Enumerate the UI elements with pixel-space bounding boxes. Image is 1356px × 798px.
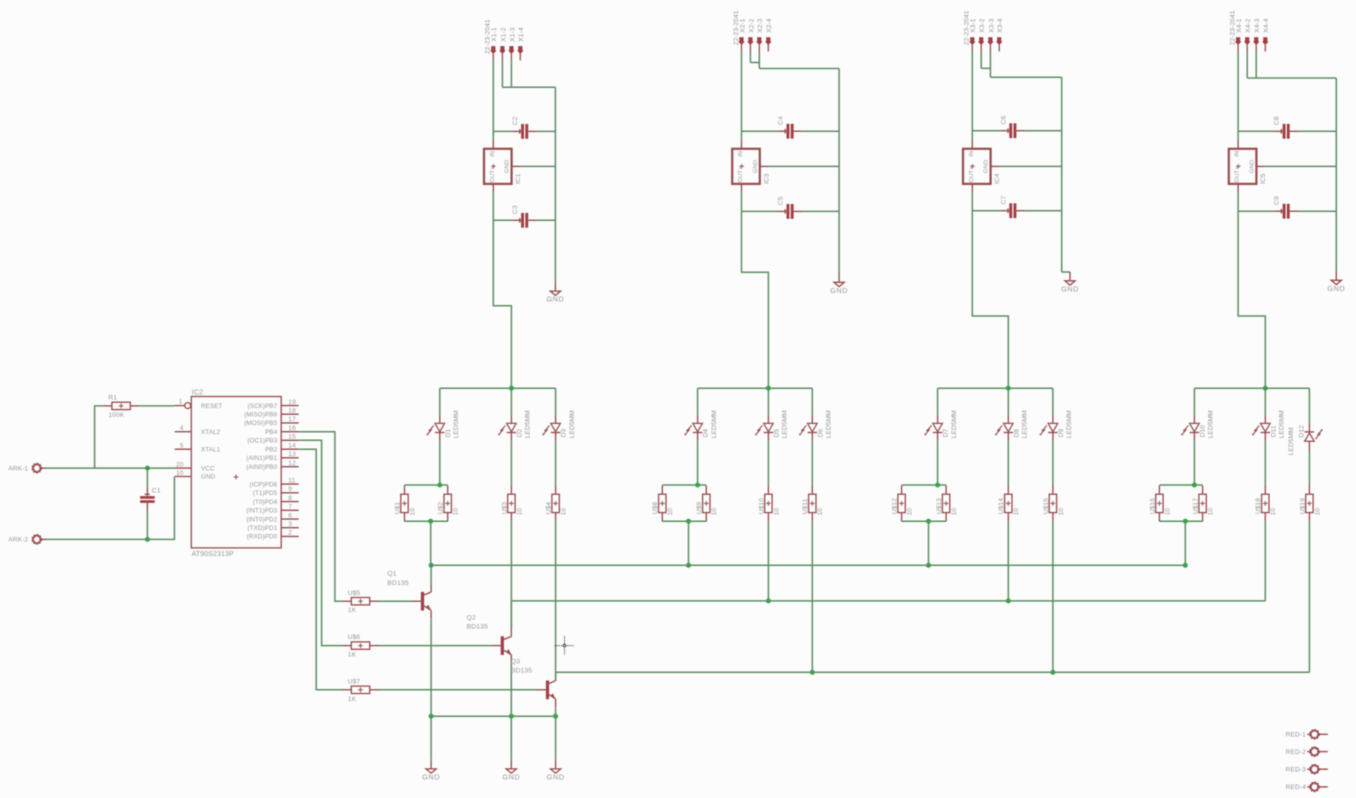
svg-text:OUT+: OUT+ [738, 166, 744, 183]
wire IC3 GND to rail [769, 165, 840, 167]
wire R1 left to VCC net [95, 406, 103, 468]
wire C8 to rail [1298, 130, 1336, 132]
wire R1 to IC2 RESET [139, 405, 175, 407]
junction pair bottom group 1 [428, 519, 433, 524]
LED D10 [1181, 410, 1214, 441]
connector pin X2-3 [756, 18, 764, 51]
wire Q3 emitter down [555, 708, 557, 716]
wire LED rail group 1 [440, 387, 556, 389]
svg-text:1K: 1K [348, 696, 357, 703]
wire X3-3 down [989, 52, 991, 78]
svg-text:GND: GND [422, 773, 440, 782]
junction pair bottom group 4 [1183, 519, 1188, 524]
wire Q1 emitter to ground [430, 716, 432, 760]
svg-text:U$11: U$11 [802, 498, 809, 514]
connector pin X1-3 [508, 27, 516, 60]
svg-text:LED5MM: LED5MM [1288, 427, 1295, 455]
svg-text:LED5MM: LED5MM [951, 410, 958, 438]
svg-text:X1-1: X1-1 [491, 27, 498, 42]
svg-text:10: 10 [667, 508, 674, 516]
svg-text:1: 1 [179, 399, 183, 406]
junction column2 on line2 group 2 [766, 598, 771, 603]
connector RED-2 [1286, 748, 1328, 756]
svg-text:C2: C2 [512, 116, 519, 125]
capacitor C9 [1274, 196, 1299, 219]
wire Q1 collector bus [431, 564, 1185, 566]
wire U$4 to Q3 collector corner [555, 522, 557, 673]
svg-text:IN: IN [490, 151, 496, 157]
LED D7 [924, 410, 957, 441]
resistor U$3 [501, 485, 523, 521]
resistor U$11 [802, 485, 824, 521]
wire IC2 PB4 to U$5 [299, 432, 343, 602]
wire IC2 PB2 to U$7 [299, 449, 343, 690]
wire pair bottom rail group 1 [405, 520, 448, 522]
svg-text:C7: C7 [1000, 195, 1007, 204]
svg-text:X2-2: X2-2 [748, 18, 755, 33]
wire column2 to line2 group 2 [767, 522, 769, 601]
wire X4-2 down [1246, 52, 1248, 79]
resistor R1 [103, 395, 139, 419]
ground [422, 760, 440, 782]
capacitor C6 [1000, 115, 1025, 138]
svg-text:1K: 1K [348, 652, 357, 659]
svg-text:X4-3: X4-3 [1254, 18, 1261, 33]
connector pin X4-3 [1253, 18, 1261, 51]
junction rail feed group 2 [766, 386, 771, 391]
wire D10 to resistor pair top [1193, 441, 1195, 485]
svg-text:C5: C5 [778, 196, 785, 205]
wire C7 to rail [1025, 210, 1062, 212]
connector pin X3-2 [978, 18, 986, 51]
svg-text:(SCK)PB7: (SCK)PB7 [247, 403, 277, 410]
svg-text:(OC1)PB3: (OC1)PB3 [247, 438, 277, 445]
wire gnd horizontal to rail [759, 68, 839, 70]
resistor U$9 [696, 485, 718, 521]
connector RED-1 [1286, 730, 1328, 738]
connector X3 22-23-2041 label [964, 10, 971, 45]
voltage regulator IC4 [963, 140, 1001, 193]
junction column1 on line1 group 4 [1183, 563, 1188, 568]
wire gnd rail of X3 block [1061, 77, 1063, 272]
svg-text:LED5MM: LED5MM [1021, 410, 1028, 438]
svg-text:(MOSI)PB5: (MOSI)PB5 [244, 420, 277, 427]
svg-text:(AIN0)PB0: (AIN0)PB0 [246, 464, 277, 471]
cursor crosshair [555, 636, 574, 655]
svg-text:D7: D7 [943, 428, 950, 437]
wire D12 to resistor [1308, 451, 1310, 486]
svg-text:10: 10 [176, 470, 184, 477]
connector pin X1-1 [490, 27, 498, 60]
svg-text:U$19: U$19 [1299, 498, 1306, 514]
ground [547, 760, 565, 782]
svg-text:C4: C4 [778, 116, 785, 125]
junction emitter Q2 [509, 714, 514, 719]
svg-text:GND: GND [546, 295, 564, 304]
svg-text:LED5MM: LED5MM [826, 410, 833, 438]
svg-text:X2-3: X2-3 [757, 18, 764, 33]
svg-text:10: 10 [1270, 508, 1277, 516]
svg-text:U$10: U$10 [758, 498, 765, 514]
svg-text:LED5MM: LED5MM [1208, 410, 1215, 438]
svg-text:XTAL1: XTAL1 [201, 446, 221, 453]
wire pair top rail group 1 [405, 484, 448, 486]
resistor U$13 [936, 485, 958, 521]
svg-text:IC2: IC2 [192, 389, 203, 396]
transistor Q3 BD135 [511, 658, 556, 707]
wire OUT node to C3 [493, 219, 512, 221]
voltage regulator IC3 [732, 140, 770, 193]
svg-text:2: 2 [288, 530, 292, 537]
junction pair top group 2 [695, 483, 700, 488]
svg-text:U$17: U$17 [1193, 498, 1200, 514]
wire X2-3 down [758, 52, 760, 69]
svg-text:C9: C9 [1274, 196, 1281, 205]
wire U$7 to Q3 base [379, 689, 538, 691]
svg-text:X3-2: X3-2 [979, 18, 986, 33]
connector RED-3 [1286, 765, 1328, 773]
junction pair bottom group 3 [926, 519, 931, 524]
junction pair top group 1 [437, 483, 442, 488]
wire GND net ARK-2 to IC2 pin10 [46, 477, 175, 540]
wire D4 to resistor pair top [697, 441, 699, 485]
wire IN node to C4 [742, 130, 778, 132]
svg-text:IC3: IC3 [763, 173, 770, 184]
svg-text:U$18: U$18 [1255, 498, 1262, 514]
connector X2 22-23-2041 label [733, 10, 740, 45]
svg-text:BD135: BD135 [387, 580, 408, 587]
LED D8 [995, 410, 1028, 441]
svg-text:D8: D8 [1013, 428, 1020, 437]
svg-text:RED-2: RED-2 [1286, 749, 1307, 756]
junction column2 on line2 group 3 [1006, 598, 1011, 603]
wire OUT node to C7 [972, 210, 1000, 212]
svg-text:LED5MM: LED5MM [782, 410, 789, 438]
connector pin X2-4 [765, 18, 773, 51]
wire Q2 collector bus [511, 600, 1265, 602]
svg-text:U$14: U$14 [998, 498, 1005, 514]
connector ARK-1 [8, 464, 46, 472]
svg-text:GND: GND [830, 286, 848, 295]
svg-text:X1-2: X1-2 [500, 27, 507, 42]
wire LED rail group 3 [938, 387, 1053, 389]
connector pin X3-1 [969, 18, 977, 51]
svg-text:10: 10 [817, 508, 824, 516]
voltage regulator IC1 [484, 140, 522, 193]
svg-text:10: 10 [1208, 508, 1215, 516]
connector X4 22-23-2041 label [1230, 10, 1237, 45]
resistor U$18 [1255, 485, 1277, 521]
svg-text:R1: R1 [108, 395, 117, 402]
svg-text:10: 10 [1013, 508, 1020, 516]
svg-text:(ICP)PD6: (ICP)PD6 [250, 481, 278, 488]
junction column3 on line3 group 3 [1050, 670, 1055, 675]
wire pair bottom to red line group 1 [430, 521, 432, 565]
wire X3-1 to IC4 IN [971, 52, 973, 141]
svg-text:D5: D5 [773, 428, 780, 437]
wire IC4 OUT to LED rail 3 [972, 193, 1008, 389]
wire OUT node to C9 [1238, 210, 1274, 212]
svg-text:IN: IN [1235, 151, 1241, 157]
wire rail to D10 [1193, 388, 1195, 414]
wire C2 to rail [537, 130, 556, 132]
svg-text:U$4: U$4 [546, 502, 553, 515]
wire Q3 collector bus [556, 671, 1310, 673]
LED D11 [1252, 410, 1285, 441]
wire pair bottom to red line group 4 [1184, 521, 1186, 565]
wire emitter rail [431, 715, 555, 717]
resistor U$1 [394, 485, 416, 521]
capacitor C5 [778, 196, 803, 219]
wire IC1 GND to rail [520, 165, 555, 167]
svg-text:X1-3: X1-3 [509, 27, 516, 42]
ground [502, 760, 520, 782]
svg-text:U$16: U$16 [1149, 498, 1156, 514]
svg-text:19: 19 [288, 399, 296, 406]
junction emitter Q1 [429, 714, 434, 719]
LED D6 [799, 410, 832, 441]
svg-text:X1-4: X1-4 [518, 27, 525, 42]
svg-text:7: 7 [288, 504, 292, 511]
svg-text:GND: GND [547, 773, 565, 782]
wire U$18 down to line2 corner [1264, 522, 1266, 601]
ground [830, 273, 848, 295]
svg-text:U$7: U$7 [348, 678, 361, 685]
svg-text:X4-1: X4-1 [1236, 18, 1243, 33]
junction pair bottom group 2 [686, 519, 691, 524]
connector RED-4 [1286, 783, 1328, 791]
svg-text:U$12: U$12 [892, 498, 899, 514]
svg-text:14: 14 [288, 443, 296, 450]
wire rail to D9 [1052, 388, 1054, 414]
svg-text:10: 10 [951, 508, 958, 516]
wire rail to D6 [811, 388, 813, 414]
LED D4 [684, 410, 717, 441]
wire IC4 GND to rail [999, 165, 1061, 167]
svg-text:(AIN1)PB1: (AIN1)PB1 [246, 455, 277, 462]
junction column3 on line3 group 2 [810, 670, 815, 675]
svg-text:X2-4: X2-4 [766, 18, 773, 33]
wire pair bottom to red line group 2 [688, 521, 690, 565]
LED D5 [755, 410, 788, 441]
wire X4-3 down [1255, 52, 1257, 79]
wire rail to D5 [767, 388, 769, 414]
wire C9 to rail [1298, 210, 1336, 212]
svg-text:D10: D10 [1199, 425, 1206, 438]
svg-text:D12: D12 [1298, 425, 1305, 438]
svg-text:ARK-1: ARK-1 [8, 465, 28, 472]
svg-text:Q2: Q2 [467, 614, 476, 621]
svg-text:OUT+: OUT+ [490, 166, 496, 183]
svg-text:10: 10 [1164, 508, 1171, 516]
wire Q2 emitter to ground [510, 716, 512, 760]
wire rail to D4 [697, 388, 699, 414]
wire U$19 down to line3 corner [1308, 522, 1310, 673]
svg-text:X4-2: X4-2 [1245, 18, 1252, 33]
svg-text:X3-3: X3-3 [988, 18, 995, 33]
wire IC2 PB3 to U$6 [299, 440, 343, 645]
svg-text:C8: C8 [1274, 116, 1281, 125]
svg-text:X3-4: X3-4 [997, 18, 1004, 33]
svg-text:C1: C1 [152, 488, 161, 495]
svg-text:D9: D9 [1058, 428, 1065, 437]
resistor U$15 [1043, 485, 1065, 521]
junction pair top group 3 [935, 483, 940, 488]
svg-text:(TXD)PD1: (TXD)PD1 [247, 525, 277, 532]
microcontroller IC2 AT90S2313P [175, 389, 299, 558]
wire gnd rail of X1 block [554, 87, 556, 282]
wire IN node to C6 [972, 130, 1000, 132]
svg-text:C6: C6 [1000, 115, 1007, 124]
svg-text:Q3: Q3 [511, 658, 520, 665]
wire X1-1 to IC1 IN [492, 60, 494, 140]
svg-text:IC1: IC1 [515, 173, 522, 184]
junction column1 on line1 group 2 [686, 563, 691, 568]
svg-text:GND: GND [1061, 284, 1079, 293]
resistor U$8 [652, 485, 674, 521]
capacitor C1 [140, 487, 161, 511]
svg-text:10: 10 [773, 508, 780, 516]
wire rail to D3 [555, 388, 557, 414]
LED D3 [542, 410, 575, 441]
svg-text:U$2: U$2 [438, 502, 445, 515]
wire pair top rail group 4 [1159, 484, 1202, 486]
wire D3 to resistor [555, 441, 557, 485]
svg-text:BD135: BD135 [511, 668, 532, 675]
svg-text:8: 8 [288, 495, 292, 502]
svg-text:D11: D11 [1270, 425, 1277, 437]
wire LED rail group 4 [1194, 387, 1309, 389]
svg-text:PB4: PB4 [265, 429, 278, 436]
wire OUT node to C5 [742, 210, 778, 212]
wire Q3 collector up [555, 672, 557, 680]
svg-text:100K: 100K [108, 412, 124, 419]
svg-text:4: 4 [180, 425, 184, 432]
svg-text:U$9: U$9 [696, 502, 703, 515]
resistor U$17 [1193, 485, 1215, 521]
wire pair bottom rail group 4 [1159, 520, 1202, 522]
svg-text:LED5MM: LED5MM [569, 410, 576, 438]
resistor U$7 [343, 678, 379, 702]
wire D11 to resistor [1264, 441, 1266, 485]
wire column3 to line3 group 2 [811, 522, 813, 673]
connector pin X2-1 [738, 18, 746, 51]
wire column3 to line3 group 3 [1052, 522, 1054, 673]
connector X1 22-23-2041 label [485, 19, 492, 54]
resistor U$5 [343, 590, 379, 614]
svg-text:GND: GND [1327, 284, 1345, 293]
connector pin X3-4 [996, 18, 1004, 51]
connector pin X4-2 [1244, 18, 1252, 51]
wire gnd horizontal to rail [990, 76, 1061, 78]
junction C1 top on VCC net [145, 466, 150, 471]
svg-text:13: 13 [288, 451, 296, 458]
svg-text:10: 10 [409, 508, 416, 516]
svg-text:GND: GND [753, 160, 759, 173]
wire pair bottom rail group 2 [662, 520, 706, 522]
connector pin X4-4 [1262, 18, 1270, 51]
wire X3-2 down [981, 52, 990, 69]
wire pair bottom to red line group 3 [928, 521, 930, 565]
svg-text:U$8: U$8 [652, 502, 659, 515]
svg-text:VCC: VCC [201, 465, 215, 472]
wire D6 to resistor [811, 441, 813, 485]
svg-text:AT90S2313P: AT90S2313P [192, 551, 234, 558]
junction column1 on line1 group 3 [926, 563, 931, 568]
svg-text:IN: IN [738, 151, 744, 157]
svg-text:18: 18 [288, 408, 296, 415]
svg-text:U$6: U$6 [348, 634, 361, 641]
wire gnd rail of X4 block [1335, 78, 1337, 272]
svg-text:10: 10 [711, 508, 718, 516]
svg-text:9: 9 [288, 486, 292, 493]
svg-text:D4: D4 [703, 428, 710, 437]
wire U$6 to Q2 base [379, 645, 493, 647]
transistor Q2 BD135 [467, 614, 512, 663]
ground [546, 282, 564, 304]
svg-text:10: 10 [561, 508, 568, 516]
wire gnd rail of X2 block [838, 69, 840, 274]
svg-text:RESET: RESET [201, 403, 223, 410]
wire C3 to rail [537, 219, 556, 221]
wire IN node to C8 [1238, 130, 1274, 132]
capacitor C2 [512, 116, 537, 139]
wire U$5 to Q1 base [379, 600, 413, 602]
svg-text:11: 11 [288, 477, 295, 484]
svg-text:OUT+: OUT+ [969, 166, 975, 183]
svg-text:LED5MM: LED5MM [711, 410, 718, 438]
svg-text:IC5: IC5 [1260, 173, 1267, 184]
svg-text:RED-4: RED-4 [1286, 784, 1307, 791]
junction rail feed group 1 [509, 386, 514, 391]
wire Q1 collector up [430, 565, 432, 584]
wire C1 to GND net [146, 512, 148, 540]
svg-text:IN: IN [969, 151, 975, 157]
svg-text:(T1)PD5: (T1)PD5 [253, 490, 278, 497]
connector pin X2-2 [747, 18, 755, 51]
wire rail to D7 [937, 388, 939, 414]
resistor U$16 [1149, 485, 1171, 521]
LED D1 [427, 410, 460, 441]
wire D1 to resistor pair top [439, 441, 441, 485]
svg-text:5: 5 [180, 443, 184, 450]
svg-text:U$15: U$15 [1043, 498, 1050, 514]
ground [1061, 272, 1079, 294]
svg-text:10: 10 [1314, 508, 1321, 516]
svg-text:(RXD)PD0: (RXD)PD0 [247, 534, 278, 541]
wire X1-2 down [501, 60, 503, 87]
wire pair top rail group 2 [662, 484, 706, 486]
wire VCC net ARK-1 to IC2 pin20 [46, 467, 175, 469]
junction rail feed group 3 [1006, 386, 1011, 391]
connector pin X3-3 [987, 18, 995, 51]
wire C6 to rail [1025, 130, 1062, 132]
svg-text:15: 15 [288, 434, 296, 441]
junction rail feed group 4 [1263, 386, 1268, 391]
resistor U$10 [758, 485, 780, 521]
svg-text:D3: D3 [561, 428, 568, 437]
wire Q1 emitter down [430, 619, 432, 716]
svg-text:GND: GND [505, 160, 511, 173]
svg-text:GND: GND [984, 160, 990, 173]
wire gnd horizontal to rail [1247, 77, 1336, 79]
svg-text:10: 10 [907, 508, 914, 516]
connector pin X1-2 [499, 27, 507, 60]
svg-text:(INT0)PD2: (INT0)PD2 [246, 516, 277, 523]
connector pin X4-1 [1235, 18, 1243, 51]
wire IC5 OUT to LED rail 4 [1238, 193, 1265, 389]
svg-text:D2: D2 [516, 428, 523, 437]
